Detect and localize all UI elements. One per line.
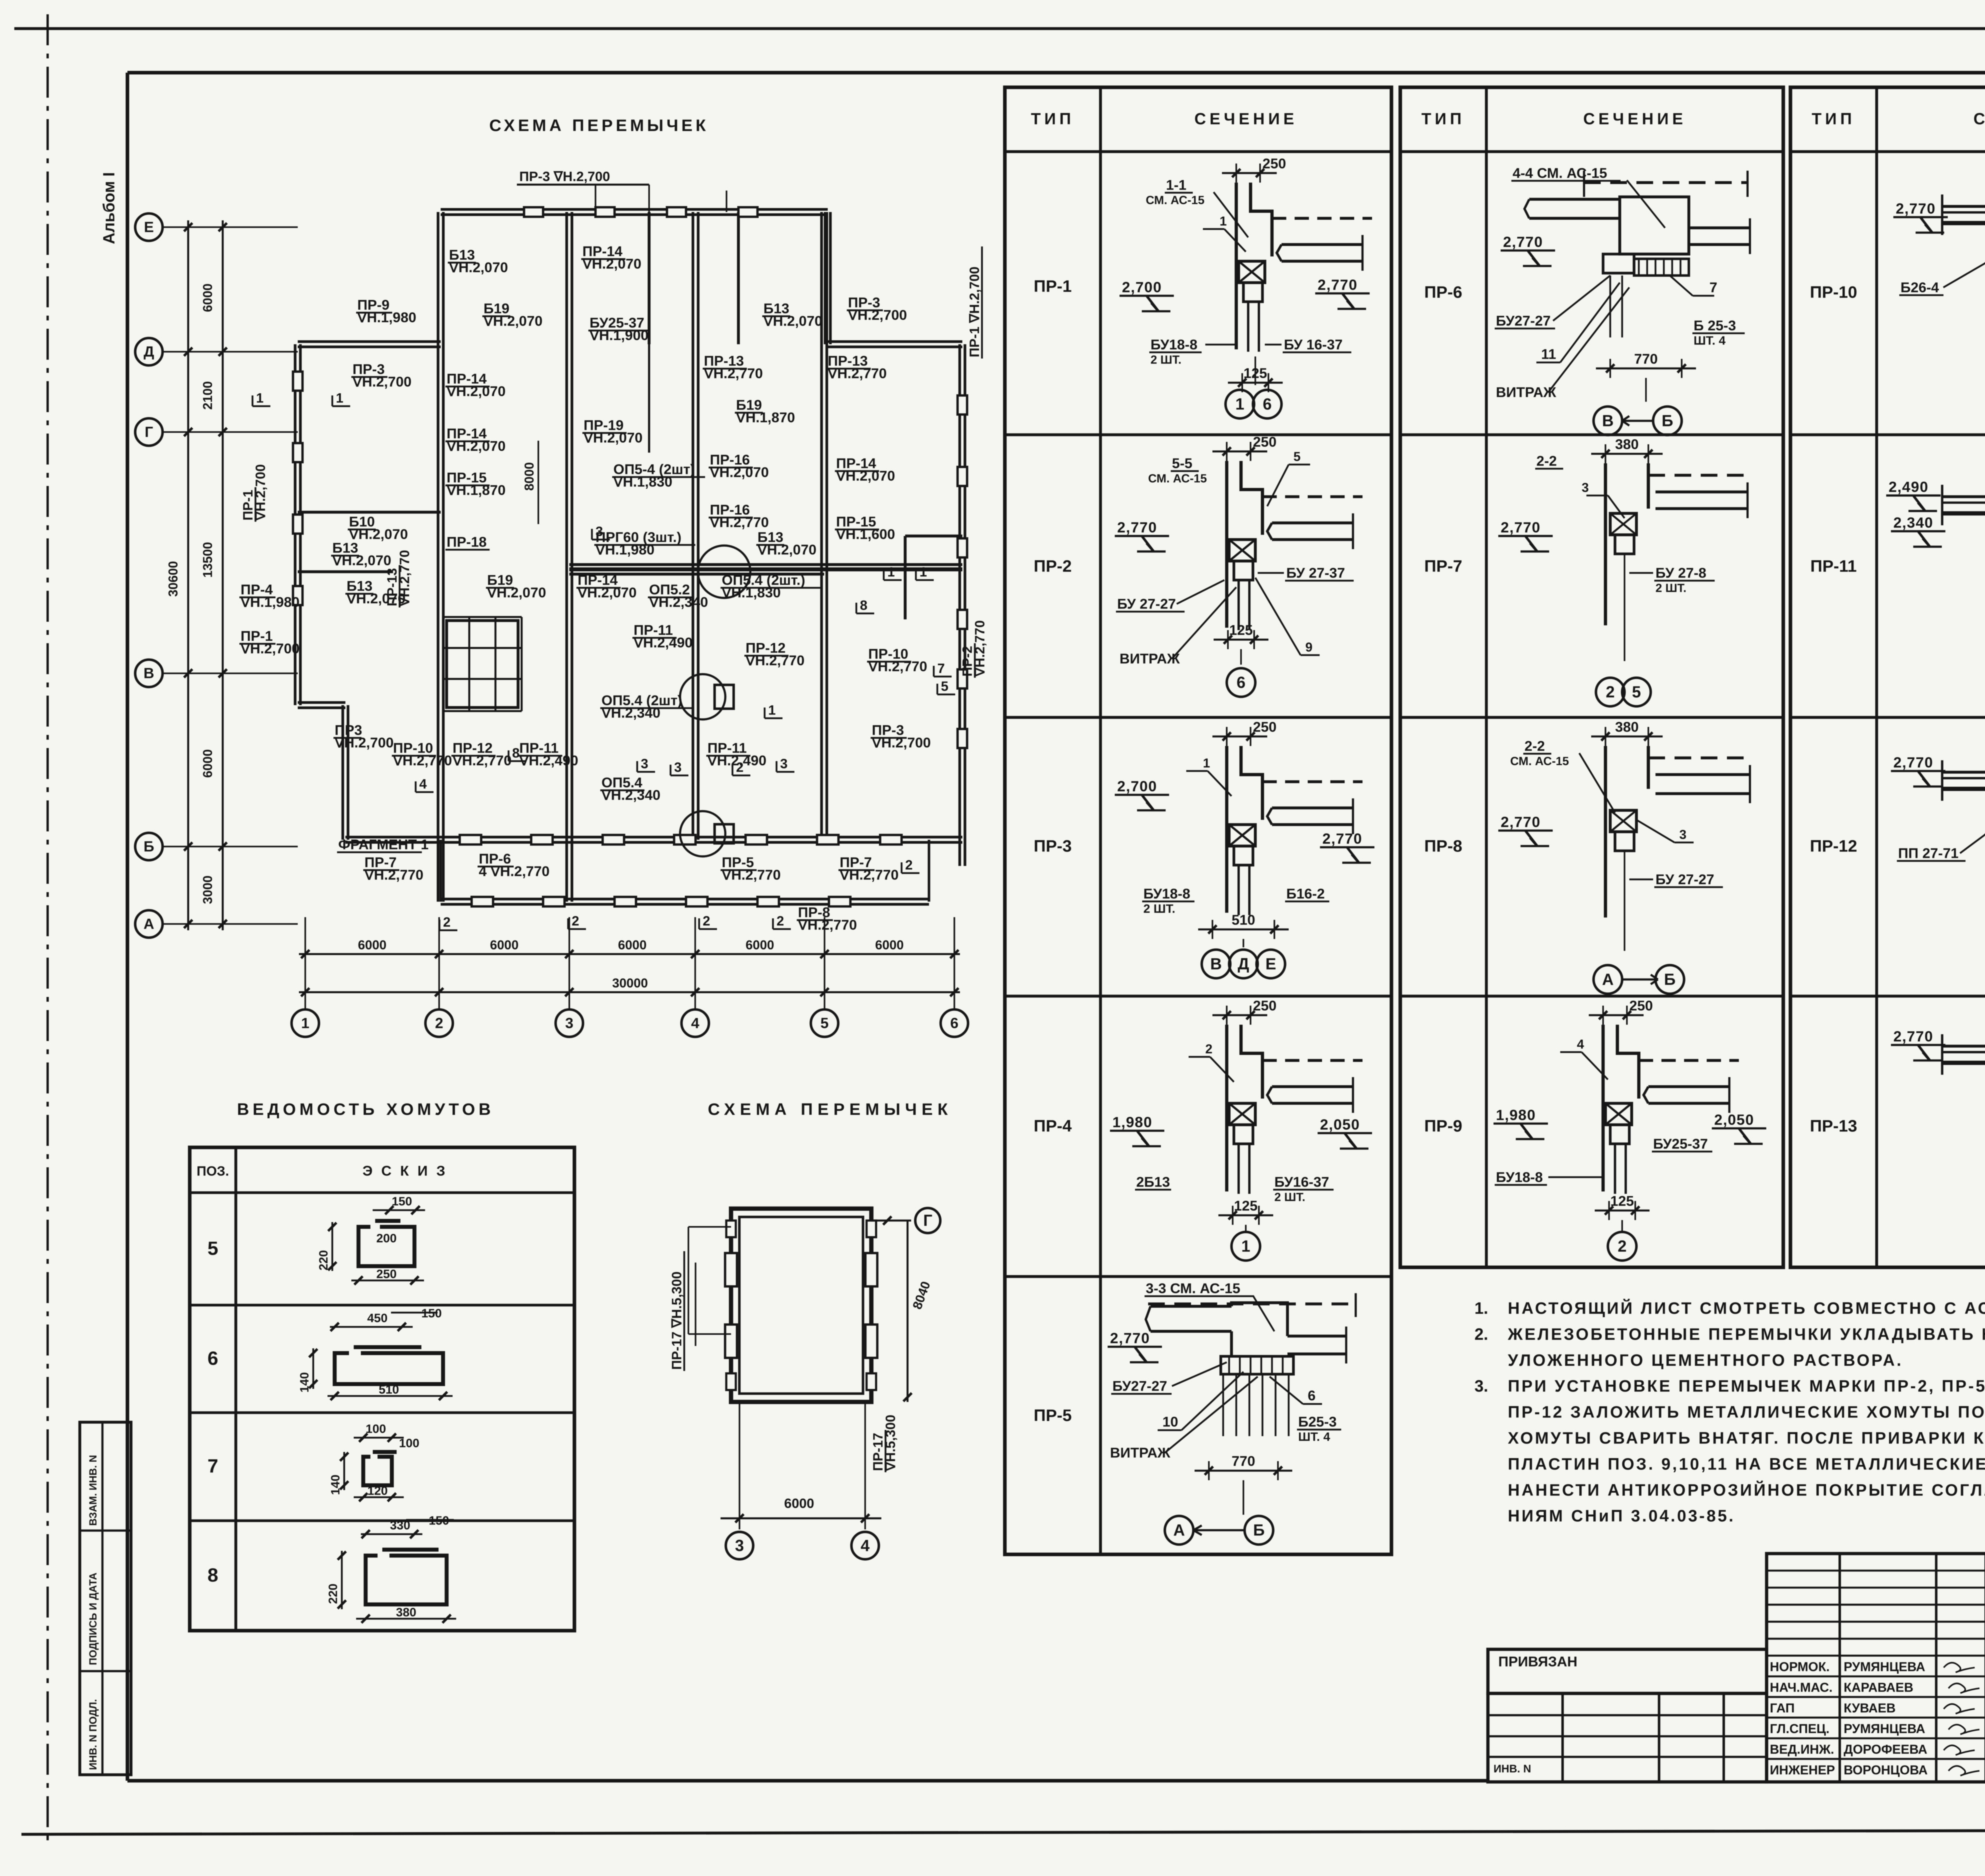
svg-text:Г: Г (923, 1211, 933, 1230)
svg-text:∇Н.2,070: ∇Н.2,070 (709, 465, 769, 480)
svg-text:150: 150 (392, 1194, 412, 1208)
svg-text:2 ШТ.: 2 ШТ. (1151, 353, 1181, 366)
svg-text:200: 200 (376, 1231, 397, 1245)
svg-text:∇Н.2,770: ∇Н.2,770 (393, 753, 452, 769)
svg-text:∇Н.2,770: ∇Н.2,770 (745, 653, 805, 669)
svg-text:ВЕДОМОСТЬ ХОМУТОВ: ВЕДОМОСТЬ ХОМУТОВ (237, 1100, 494, 1118)
svg-text:Е: Е (1265, 954, 1276, 973)
svg-text:1: 1 (919, 565, 927, 580)
svg-text:5: 5 (1632, 683, 1641, 701)
svg-text:6: 6 (1263, 395, 1272, 413)
svg-text:∇Н.2,340: ∇Н.2,340 (601, 787, 661, 803)
svg-text:3: 3 (674, 760, 682, 775)
svg-text:∇Н.2,770: ∇Н.2,770 (839, 867, 899, 883)
svg-text:13500: 13500 (200, 542, 215, 578)
svg-text:∇Н.1,980: ∇Н.1,980 (357, 310, 416, 326)
svg-text:2,050: 2,050 (1320, 1116, 1360, 1133)
svg-text:ХОМУТЫ СВАРИТЬ ВНАТЯГ. ПОСЛ: ХОМУТЫ СВАРИТЬ ВНАТЯГ. ПОСЛЕ ПРИВАРКИ К … (1508, 1429, 1985, 1447)
svg-text:ПОДПИСЬ И ДАТА: ПОДПИСЬ И ДАТА (88, 1572, 99, 1665)
svg-text:СМ. АС-15: СМ. АС-15 (1510, 755, 1569, 768)
svg-text:∇Н.2,070: ∇Н.2,070 (449, 260, 508, 276)
svg-text:2,770: 2,770 (1893, 754, 1933, 771)
svg-text:ПР-8: ПР-8 (1424, 837, 1463, 855)
svg-text:3.: 3. (1474, 1377, 1488, 1395)
svg-text:ПРИВЯЗАН: ПРИВЯЗАН (1498, 1654, 1577, 1670)
svg-text:∇Н.2,700: ∇Н.2,700 (240, 641, 300, 657)
svg-text:СМ. АС-15: СМ. АС-15 (1148, 472, 1207, 485)
svg-text:3000: 3000 (200, 875, 215, 904)
svg-text:220: 220 (326, 1584, 340, 1604)
svg-text:1.: 1. (1474, 1299, 1488, 1317)
svg-text:ПР-3: ПР-3 (1034, 837, 1072, 855)
svg-text:4: 4 (691, 1014, 700, 1031)
svg-text:2,770: 2,770 (1893, 1028, 1933, 1045)
svg-text:6: 6 (1308, 1388, 1316, 1404)
svg-text:250: 250 (1262, 156, 1286, 172)
svg-text:770: 770 (1231, 1453, 1255, 1469)
svg-text:2: 2 (1606, 683, 1615, 701)
svg-text:250: 250 (1629, 998, 1653, 1014)
svg-text:∇Н.2,700: ∇Н.2,700 (334, 735, 394, 751)
svg-text:3: 3 (641, 756, 648, 771)
svg-text:510: 510 (379, 1382, 399, 1396)
svg-text:2: 2 (435, 1014, 443, 1031)
svg-text:∇Н.2,070: ∇Н.2,070 (763, 313, 823, 329)
svg-text:∇Н.2,770: ∇Н.2,770 (721, 867, 781, 883)
svg-text:2,770: 2,770 (1501, 519, 1541, 536)
svg-text:2.: 2. (1474, 1325, 1488, 1343)
svg-text:БУ18-8: БУ18-8 (1143, 886, 1190, 902)
svg-text:∇Н.1,870: ∇Н.1,870 (446, 482, 506, 498)
svg-text:30600: 30600 (166, 561, 180, 597)
svg-text:∇Н.2,770: ∇Н.2,770 (397, 550, 412, 607)
svg-text:СМ. АС-15: СМ. АС-15 (1146, 194, 1204, 207)
svg-text:1: 1 (1235, 395, 1245, 413)
svg-text:Б25-3: Б25-3 (1298, 1414, 1337, 1430)
svg-text:6: 6 (1237, 673, 1246, 692)
svg-text:Д: Д (144, 343, 154, 360)
svg-text:2,770: 2,770 (1318, 276, 1358, 293)
svg-text:∇Н.2,770: ∇Н.2,770 (709, 515, 769, 530)
svg-text:СХЕМА ПЕРЕМЫЧЕК: СХЕМА ПЕРЕМЫЧЕК (489, 116, 709, 135)
svg-text:4 ∇Н.2,770: 4 ∇Н.2,770 (479, 864, 549, 879)
svg-text:9: 9 (1305, 640, 1312, 654)
svg-text:∇Н.1,980: ∇Н.1,980 (595, 542, 655, 558)
svg-text:∇Н.2,770: ∇Н.2,770 (798, 917, 857, 933)
svg-text:5: 5 (821, 1014, 829, 1031)
svg-text:ПП 27-71: ПП 27-71 (1898, 845, 1958, 861)
svg-text:НАСТОЯЩИЙ ЛИСТ СМОТРЕТЬ СОВ: НАСТОЯЩИЙ ЛИСТ СМОТРЕТЬ СОВМЕСТНО С АС-1… (1508, 1299, 1985, 1317)
svg-text:ПЛАСТИН ПОЗ. 9,10,11 НА ВСЕ: ПЛАСТИН ПОЗ. 9,10,11 НА ВСЕ МЕТАЛЛИЧЕСКИ… (1508, 1454, 1985, 1473)
svg-text:ПР-5: ПР-5 (1034, 1406, 1072, 1425)
svg-text:БУ27-27: БУ27-27 (1496, 313, 1551, 329)
svg-text:8: 8 (512, 746, 520, 761)
svg-text:125: 125 (1229, 622, 1253, 638)
svg-text:3: 3 (780, 756, 788, 771)
svg-text:БУ 16-37: БУ 16-37 (1284, 337, 1343, 353)
svg-text:ПР-18: ПР-18 (447, 534, 487, 550)
svg-text:2,700: 2,700 (1117, 778, 1157, 794)
svg-text:2: 2 (572, 914, 579, 929)
svg-text:∇Н.1,870: ∇Н.1,870 (736, 410, 795, 426)
svg-text:1: 1 (256, 391, 264, 406)
svg-text:2: 2 (777, 914, 784, 929)
svg-text:ИНЖЕНЕР: ИНЖЕНЕР (1770, 1763, 1835, 1777)
svg-text:2,770: 2,770 (1501, 814, 1541, 830)
svg-text:∇Н.2,770: ∇Н.2,770 (868, 659, 927, 675)
svg-text:∇Н.2,770: ∇Н.2,770 (452, 753, 512, 769)
svg-text:6000: 6000 (784, 1496, 814, 1511)
svg-text:ПР-11: ПР-11 (1810, 557, 1857, 575)
svg-text:7: 7 (937, 661, 945, 676)
svg-text:2,490: 2,490 (1889, 478, 1929, 495)
svg-text:2,050: 2,050 (1714, 1111, 1754, 1128)
svg-text:30000: 30000 (612, 976, 648, 990)
svg-text:∇Н.1,980: ∇Н.1,980 (240, 594, 300, 610)
svg-text:В: В (1602, 411, 1613, 430)
svg-text:ПР-7: ПР-7 (1424, 557, 1463, 575)
svg-text:2: 2 (736, 760, 744, 775)
svg-text:6000: 6000 (875, 938, 904, 952)
svg-text:ГАП: ГАП (1770, 1701, 1795, 1715)
svg-text:ВОРОНЦОВА: ВОРОНЦОВА (1844, 1763, 1928, 1777)
svg-text:ПР-12: ПР-12 (1810, 837, 1857, 855)
svg-text:БУ16-37: БУ16-37 (1274, 1174, 1329, 1190)
svg-text:ДОРОФЕЕВА: ДОРОФЕЕВА (1844, 1742, 1927, 1756)
svg-text:ИНВ. N ПОДЛ.: ИНВ. N ПОДЛ. (88, 1699, 99, 1770)
svg-text:ПР-13: ПР-13 (1810, 1116, 1857, 1135)
svg-text:1: 1 (1203, 756, 1210, 770)
svg-text:770: 770 (1634, 351, 1657, 367)
svg-text:2 ШТ.: 2 ШТ. (1274, 1191, 1305, 1204)
svg-text:7: 7 (1709, 280, 1717, 295)
svg-text:8: 8 (208, 1564, 218, 1586)
svg-text:2,770: 2,770 (1896, 200, 1936, 217)
svg-text:ВИТРАЖ: ВИТРАЖ (1120, 651, 1180, 667)
svg-text:3: 3 (1679, 827, 1686, 842)
svg-text:2,770: 2,770 (1117, 519, 1157, 536)
svg-text:2,340: 2,340 (1893, 514, 1933, 531)
svg-text:2: 2 (1618, 1237, 1627, 1255)
svg-text:125: 125 (1234, 1198, 1257, 1214)
svg-text:А: А (144, 915, 154, 932)
svg-text:СХЕМА ПЕРЕМЫЧЕК: СХЕМА ПЕРЕМЫЧЕК (708, 1100, 952, 1118)
svg-text:∇Н.2,070: ∇Н.2,070 (836, 468, 895, 484)
svg-text:125: 125 (1610, 1193, 1634, 1209)
svg-text:6000: 6000 (200, 749, 215, 778)
svg-text:БУ 27-37: БУ 27-37 (1286, 565, 1345, 581)
svg-text:БУ18-8: БУ18-8 (1496, 1169, 1543, 1185)
svg-text:220: 220 (316, 1250, 330, 1271)
svg-text:Д: Д (1238, 954, 1249, 973)
svg-text:ПР-3 ∇Н.2,700: ПР-3 ∇Н.2,700 (519, 169, 610, 184)
svg-text:6000: 6000 (358, 938, 386, 952)
svg-text:ПОЗ.: ПОЗ. (197, 1164, 229, 1179)
svg-text:Б: Б (144, 838, 154, 854)
svg-text:2,770: 2,770 (1110, 1330, 1150, 1346)
svg-text:8: 8 (860, 598, 867, 613)
svg-text:11: 11 (1541, 346, 1556, 362)
svg-text:2: 2 (1205, 1042, 1212, 1056)
svg-text:7: 7 (208, 1456, 218, 1477)
svg-text:∇Н.2,070: ∇Н.2,070 (487, 585, 546, 601)
svg-text:2,770: 2,770 (1503, 233, 1543, 250)
svg-text:250: 250 (1253, 434, 1276, 450)
svg-text:∇Н.2,490: ∇Н.2,490 (633, 635, 693, 651)
svg-text:∇Н.2,070: ∇Н.2,070 (483, 313, 543, 329)
svg-text:1,980: 1,980 (1496, 1107, 1536, 1123)
svg-text:2-2: 2-2 (1536, 453, 1557, 469)
svg-text:НАНЕСТИ АНТИКОРРОЗИЙНОЕ ПОКР: НАНЕСТИ АНТИКОРРОЗИЙНОЕ ПОКРЫТИЕ СОГЛАСН… (1508, 1481, 1985, 1499)
svg-text:Б: Б (1661, 411, 1673, 430)
svg-text:380: 380 (1615, 719, 1638, 735)
svg-text:ТИП: ТИП (1421, 110, 1465, 128)
svg-text:ПР-12 ЗАЛОЖИТЬ МЕТАЛЛИЧЕСКИЕ: ПР-12 ЗАЛОЖИТЬ МЕТАЛЛИЧЕСКИЕ ХОМУТЫ ПОЗ.… (1508, 1403, 1985, 1421)
svg-text:ВЗАМ. ИНВ. N: ВЗАМ. ИНВ. N (88, 1455, 99, 1526)
svg-text:10: 10 (1162, 1414, 1178, 1430)
svg-text:1-1: 1-1 (1166, 177, 1187, 193)
svg-text:ВИТРАЖ: ВИТРАЖ (1110, 1445, 1170, 1461)
svg-text:5-5: 5-5 (1172, 455, 1193, 471)
svg-text:2: 2 (905, 858, 913, 873)
svg-text:∇Н.2,770: ∇Н.2,770 (973, 620, 988, 677)
svg-text:∇Н.2,700: ∇Н.2,700 (871, 735, 931, 751)
svg-text:6000: 6000 (618, 938, 647, 952)
svg-text:∇Н.1,900: ∇Н.1,900 (589, 328, 649, 343)
svg-text:Б: Б (1664, 970, 1675, 988)
svg-text:ПР-9: ПР-9 (1424, 1116, 1463, 1135)
svg-text:НАЧ.МАС.: НАЧ.МАС. (1770, 1680, 1833, 1695)
svg-text:КУВАЕВ: КУВАЕВ (1844, 1701, 1896, 1715)
svg-text:3: 3 (1582, 480, 1589, 495)
svg-text:2: 2 (703, 914, 710, 929)
svg-text:2,770: 2,770 (1322, 830, 1363, 847)
svg-text:РУМЯНЦЕВА: РУМЯНЦЕВА (1844, 1722, 1925, 1736)
svg-text:2-2: 2-2 (1524, 738, 1545, 754)
svg-text:2 ШТ.: 2 ШТ. (1143, 902, 1175, 916)
svg-text:НОРМОК.: НОРМОК. (1770, 1660, 1830, 1674)
svg-text:ТИП: ТИП (1031, 110, 1075, 128)
svg-text:ФРАГМЕНТ 1: ФРАГМЕНТ 1 (338, 837, 429, 852)
svg-text:1: 1 (1220, 214, 1227, 228)
svg-text:РУМЯНЦЕВА: РУМЯНЦЕВА (1844, 1660, 1925, 1674)
svg-text:2100: 2100 (200, 381, 215, 410)
svg-text:∇Н.2,070: ∇Н.2,070 (757, 542, 817, 558)
svg-text:Альбом I: Альбом I (100, 172, 118, 244)
svg-text:ТИП: ТИП (1812, 110, 1856, 128)
svg-text:ВИТРАЖ: ВИТРАЖ (1496, 384, 1556, 400)
svg-text:ШТ. 4: ШТ. 4 (1298, 1430, 1330, 1444)
svg-text:Э С К И З: Э С К И З (362, 1163, 447, 1179)
svg-text:ЖЕЛЕЗОБЕТОННЫЕ ПЕРЕМЫЧКИ УКЛ: ЖЕЛЕЗОБЕТОННЫЕ ПЕРЕМЫЧКИ УКЛАДЫВАТЬ НА С… (1507, 1325, 1985, 1343)
svg-text:∇Н.1,830: ∇Н.1,830 (613, 474, 673, 490)
svg-text:4-4 СМ. АС-15: 4-4 СМ. АС-15 (1513, 165, 1607, 181)
svg-text:СЕЧЕНИЕ: СЕЧЕНИЕ (1195, 110, 1298, 128)
svg-text:ИНВ. N: ИНВ. N (1494, 1762, 1531, 1775)
svg-text:Б: Б (1253, 1521, 1264, 1539)
svg-text:∇Н.2,770: ∇Н.2,770 (827, 366, 887, 382)
svg-text:ПР-1: ПР-1 (1034, 277, 1072, 295)
svg-text:Б16-2: Б16-2 (1286, 886, 1325, 902)
svg-text:В: В (144, 665, 154, 681)
svg-text:ПР-4: ПР-4 (1034, 1116, 1072, 1135)
svg-text:ВЕД.ИНЖ.: ВЕД.ИНЖ. (1770, 1742, 1834, 1756)
svg-text:Б26-4: Б26-4 (1900, 280, 1939, 295)
svg-text:1: 1 (1241, 1237, 1251, 1255)
svg-text:6000: 6000 (200, 283, 215, 312)
svg-text:ПР-6: ПР-6 (1424, 283, 1463, 301)
svg-text:1,980: 1,980 (1112, 1114, 1152, 1130)
svg-text:510: 510 (1231, 912, 1255, 928)
svg-text:ШТ. 4: ШТ. 4 (1694, 334, 1725, 347)
svg-text:СЕЧЕНИЕ: СЕЧЕНИЕ (1583, 110, 1686, 128)
svg-text:БУ27-27: БУ27-27 (1112, 1378, 1167, 1394)
svg-text:120: 120 (367, 1484, 387, 1498)
svg-text:1: 1 (887, 565, 895, 580)
svg-text:2: 2 (443, 915, 451, 930)
svg-text:8040: 8040 (910, 1279, 933, 1311)
svg-text:3: 3 (735, 1536, 744, 1554)
svg-text:6000: 6000 (746, 938, 774, 952)
svg-text:Б 25-3: Б 25-3 (1694, 318, 1736, 334)
svg-text:∇Н.2,770: ∇Н.2,770 (703, 366, 763, 382)
svg-text:∇Н.2,700: ∇Н.2,700 (352, 374, 412, 390)
svg-text:В: В (1210, 954, 1222, 973)
svg-text:ПРИ УСТАНОВКЕ ПЕРЕМЫЧЕК МАР: ПРИ УСТАНОВКЕ ПЕРЕМЫЧЕК МАРКИ ПР-2, ПР-5… (1508, 1377, 1985, 1395)
svg-text:Е: Е (144, 218, 154, 235)
svg-text:5: 5 (941, 679, 948, 694)
svg-text:А: А (1602, 970, 1613, 988)
svg-text:ГЛ.СПЕЦ.: ГЛ.СПЕЦ. (1770, 1722, 1829, 1736)
svg-text:8000: 8000 (522, 462, 536, 491)
svg-text:СЕЧЕНИЕ: СЕЧЕНИЕ (1973, 110, 1985, 128)
svg-text:100: 100 (399, 1436, 419, 1450)
svg-text:ПР-10: ПР-10 (1810, 283, 1857, 301)
svg-text:4: 4 (1577, 1037, 1584, 1051)
svg-text:2,700: 2,700 (1122, 279, 1162, 295)
svg-text:ПР-17 ∇Н.5,300: ПР-17 ∇Н.5,300 (669, 1271, 684, 1370)
svg-text:БУ 27-8: БУ 27-8 (1655, 565, 1706, 581)
svg-text:БУ 27-27: БУ 27-27 (1117, 596, 1176, 612)
svg-text:∇Н.2,700: ∇Н.2,700 (253, 464, 268, 521)
svg-text:250: 250 (1253, 998, 1276, 1014)
svg-text:∇Н.2,070: ∇Н.2,070 (446, 384, 506, 399)
svg-text:∇Н.5,300: ∇Н.5,300 (883, 1415, 898, 1471)
svg-text:6000: 6000 (490, 938, 518, 952)
svg-text:450: 450 (367, 1311, 387, 1325)
svg-text:УЛОЖЕННОГО ЦЕМЕНТНОГО РАСТВО: УЛОЖЕННОГО ЦЕМЕНТНОГО РАСТВОРА. (1508, 1351, 1903, 1369)
svg-text:∇Н.2,070: ∇Н.2,070 (582, 256, 642, 272)
svg-text:ПР-2: ПР-2 (1034, 557, 1072, 575)
svg-text:∇Н.2,340: ∇Н.2,340 (649, 594, 708, 610)
svg-text:Г: Г (145, 423, 153, 440)
svg-text:∇Н.2,340: ∇Н.2,340 (601, 705, 661, 721)
svg-text:2 ШТ.: 2 ШТ. (1655, 582, 1686, 595)
svg-text:140: 140 (328, 1475, 342, 1495)
svg-text:6: 6 (208, 1348, 218, 1369)
svg-text:250: 250 (1253, 719, 1276, 735)
svg-text:3: 3 (565, 1014, 574, 1031)
svg-text:4: 4 (419, 777, 427, 792)
svg-text:380: 380 (396, 1605, 416, 1619)
svg-text:∇Н.2,070: ∇Н.2,070 (332, 553, 391, 569)
svg-text:100: 100 (366, 1422, 386, 1436)
svg-text:КАРАВАЕВ: КАРАВАЕВ (1844, 1680, 1913, 1695)
svg-text:140: 140 (297, 1372, 311, 1392)
svg-text:380: 380 (1615, 436, 1638, 452)
svg-text:∇Н.2,700: ∇Н.2,700 (848, 307, 907, 323)
svg-text:∇Н.1,600: ∇Н.1,600 (836, 526, 895, 542)
svg-text:БУ25-37: БУ25-37 (1653, 1136, 1708, 1152)
svg-text:5: 5 (208, 1238, 218, 1259)
svg-text:БУ18-8: БУ18-8 (1151, 337, 1197, 353)
svg-text:1: 1 (768, 703, 776, 718)
svg-text:БУ 27-27: БУ 27-27 (1655, 871, 1714, 887)
svg-text:2Б13: 2Б13 (1136, 1174, 1170, 1190)
svg-text:∇Н.2,490: ∇Н.2,490 (519, 753, 578, 769)
svg-text:НИЯМ СНиП 3.04.03-85.: НИЯМ СНиП 3.04.03-85. (1508, 1506, 1735, 1525)
svg-text:5: 5 (1293, 449, 1301, 464)
svg-text:А: А (1173, 1521, 1185, 1539)
svg-text:∇Н.2,070: ∇Н.2,070 (446, 438, 506, 454)
svg-text:∇Н.2,070: ∇Н.2,070 (577, 585, 637, 601)
svg-text:∇Н.2,770: ∇Н.2,770 (364, 867, 424, 883)
svg-text:4: 4 (861, 1536, 870, 1554)
svg-text:3-3 СМ. АС-15: 3-3 СМ. АС-15 (1146, 1280, 1240, 1296)
svg-text:∇Н.1,830: ∇Н.1,830 (721, 585, 781, 601)
svg-text:1: 1 (336, 391, 343, 406)
svg-text:1: 1 (301, 1014, 310, 1031)
svg-text:ПР-1 ∇Н.2,700: ПР-1 ∇Н.2,700 (967, 266, 982, 357)
svg-text:6: 6 (950, 1014, 959, 1031)
svg-text:∇Н.2,070: ∇Н.2,070 (583, 430, 643, 446)
svg-text:250: 250 (376, 1267, 397, 1281)
svg-text:3: 3 (595, 524, 603, 539)
